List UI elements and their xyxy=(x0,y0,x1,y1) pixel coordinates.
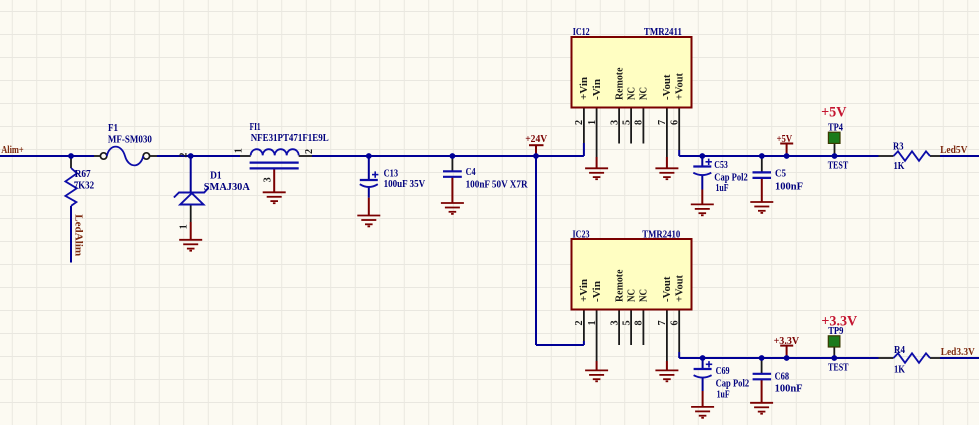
svg-text:TP4: TP4 xyxy=(828,123,843,134)
svg-text:MF-SM030: MF-SM030 xyxy=(108,135,152,146)
svg-text:6: 6 xyxy=(669,120,680,125)
svg-text:Alim+: Alim+ xyxy=(1,145,24,156)
svg-text:3: 3 xyxy=(609,320,620,325)
svg-text:7K32: 7K32 xyxy=(74,181,95,192)
svg-text:C5: C5 xyxy=(775,169,786,180)
svg-text:D1: D1 xyxy=(210,171,222,182)
svg-text:-Vout: -Vout xyxy=(662,74,673,100)
svg-text:NFE31PT471F1E9L: NFE31PT471F1E9L xyxy=(251,133,329,144)
svg-text:+Vin: +Vin xyxy=(579,279,590,302)
svg-text:8: 8 xyxy=(634,120,645,125)
svg-text:NC: NC xyxy=(639,289,650,302)
svg-text:100nF: 100nF xyxy=(775,182,803,193)
svg-text:1: 1 xyxy=(587,120,598,125)
svg-text:IC23: IC23 xyxy=(573,229,590,240)
svg-text:Remote: Remote xyxy=(614,67,625,100)
svg-text:C53: C53 xyxy=(714,160,728,171)
svg-text:TEST: TEST xyxy=(828,362,849,373)
svg-text:+3.3V: +3.3V xyxy=(774,336,800,347)
svg-text:-Vin: -Vin xyxy=(592,79,603,100)
svg-text:-Vout: -Vout xyxy=(662,276,673,302)
svg-text:LedAlim: LedAlim xyxy=(73,214,84,257)
svg-text:NC: NC xyxy=(626,289,637,302)
svg-text:100uF 35V: 100uF 35V xyxy=(384,179,426,190)
svg-text:7: 7 xyxy=(657,120,668,125)
svg-text:2: 2 xyxy=(304,149,315,154)
svg-text:Led5V: Led5V xyxy=(940,145,968,156)
svg-text:R3: R3 xyxy=(893,142,904,153)
svg-text:1K: 1K xyxy=(894,161,905,172)
svg-text:100nF: 100nF xyxy=(775,384,803,395)
svg-text:Remote: Remote xyxy=(614,269,625,302)
svg-text:5: 5 xyxy=(621,320,632,325)
svg-text:3: 3 xyxy=(609,120,620,125)
svg-text:+5V: +5V xyxy=(777,134,793,145)
svg-text:+3.3V: +3.3V xyxy=(821,313,857,329)
svg-text:NC: NC xyxy=(626,87,637,100)
svg-text:FI1: FI1 xyxy=(250,122,261,133)
svg-text:TEST: TEST xyxy=(828,160,849,171)
svg-text:8: 8 xyxy=(634,320,645,325)
svg-text:1: 1 xyxy=(233,148,244,153)
svg-text:100nF 50V X7R: 100nF 50V X7R xyxy=(466,180,529,191)
svg-text:3: 3 xyxy=(262,177,273,182)
svg-text:Cap Pol2: Cap Pol2 xyxy=(714,173,748,184)
svg-text:+24V: +24V xyxy=(525,134,548,145)
svg-text:1uF: 1uF xyxy=(716,183,729,194)
svg-text:TMR2411: TMR2411 xyxy=(644,27,682,38)
svg-text:Led3.3V: Led3.3V xyxy=(941,347,976,358)
svg-text:-Vin: -Vin xyxy=(592,281,603,302)
svg-text:7: 7 xyxy=(657,320,668,325)
svg-text:+Vout: +Vout xyxy=(675,72,686,100)
svg-text:IC12: IC12 xyxy=(573,27,590,38)
svg-text:5: 5 xyxy=(621,120,632,125)
svg-text:2: 2 xyxy=(574,320,585,325)
svg-text:1K: 1K xyxy=(894,365,905,376)
svg-text:1: 1 xyxy=(178,224,189,229)
svg-text:2: 2 xyxy=(574,120,585,125)
svg-text:C13: C13 xyxy=(384,169,399,180)
svg-text:1: 1 xyxy=(587,320,598,325)
svg-text:C4: C4 xyxy=(466,167,476,178)
svg-text:2: 2 xyxy=(179,153,190,158)
svg-text:R67: R67 xyxy=(75,169,91,180)
svg-text:6: 6 xyxy=(669,320,680,325)
svg-text:C69: C69 xyxy=(716,366,730,377)
svg-text:SMAJ30A: SMAJ30A xyxy=(204,182,251,193)
svg-text:+Vout: +Vout xyxy=(675,274,686,302)
svg-text:F1: F1 xyxy=(108,123,118,134)
svg-text:C68: C68 xyxy=(775,372,790,383)
svg-text:NC: NC xyxy=(639,87,650,100)
svg-text:R4: R4 xyxy=(894,345,905,356)
svg-text:+Vin: +Vin xyxy=(579,77,590,100)
svg-text:TMR2410: TMR2410 xyxy=(642,229,680,240)
svg-text:Cap Pol2: Cap Pol2 xyxy=(716,378,750,389)
svg-text:1uF: 1uF xyxy=(717,390,730,401)
svg-text:+5V: +5V xyxy=(821,104,847,120)
